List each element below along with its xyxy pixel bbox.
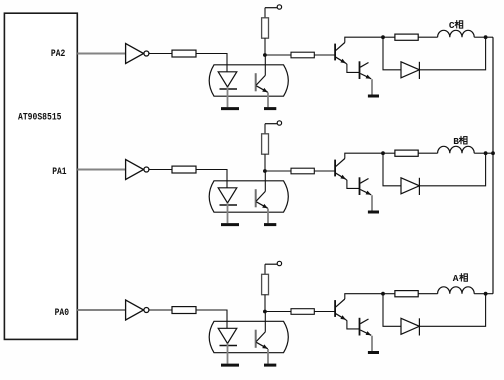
Vcc terminal	[265, 261, 282, 265]
wire node to resistor R3	[265, 54, 291, 56]
resistor R11 base	[291, 309, 314, 315]
wire L1 to phase node	[474, 36, 485, 38]
wire Q4 emitter to ground	[371, 195, 373, 210]
wire Q2 emitter to ground	[371, 79, 373, 94]
wire L3 to phase node	[474, 293, 485, 295]
wire LED cathode to ground	[227, 87, 229, 107]
inverter U2	[126, 160, 149, 180]
svg-text:PA0: PA0	[55, 308, 69, 319]
LED inside OC2	[218, 188, 237, 205]
Vcc terminal	[265, 5, 282, 9]
wire Q5 emitter to Q6 base	[346, 320, 360, 329]
wire R11 to Q5 base	[314, 311, 335, 313]
Vcc terminal	[265, 121, 282, 125]
ground (phototransistor emitter)	[264, 107, 276, 110]
label C相	[449, 20, 463, 31]
junction dot on bus	[491, 151, 495, 155]
wire R4 to inductor L1	[418, 36, 437, 38]
inverter U3	[126, 300, 149, 320]
ground (Q2 emitter)	[368, 95, 379, 98]
svg-text:C: C	[449, 20, 455, 31]
wire node to resistor R12	[383, 293, 395, 295]
node dot (phase node A)	[484, 292, 488, 296]
node dot (phase node C)	[484, 35, 488, 39]
node dot (collector node)	[381, 292, 385, 296]
ground (phototransistor emitter)	[264, 223, 276, 226]
wire phototransistor collector to node	[264, 312, 266, 332]
diode D1 flyback	[401, 62, 419, 79]
transistor Q6	[360, 318, 372, 336]
wire node to resistor R11	[265, 311, 291, 313]
wire Vcc to resistor R2	[264, 8, 266, 18]
optocoupler OC3 body	[209, 321, 288, 352]
wire node to diode D1 anode	[383, 37, 401, 70]
wire phototransistor collector to node	[264, 55, 266, 75]
wire Q6 emitter to ground	[371, 336, 373, 351]
transistor Q5	[335, 299, 346, 320]
optocoupler OC1 body	[209, 65, 288, 96]
wire R9 to optocoupler LED anode	[196, 310, 227, 328]
resistor R2 pull-up	[262, 18, 269, 38]
resistor R3 base	[291, 52, 314, 58]
wire R5 to optocoupler LED anode	[196, 170, 227, 188]
LED inside OC1	[218, 72, 237, 89]
node junction dot	[263, 310, 267, 314]
optocoupler OC2 body	[209, 181, 288, 212]
wire node to diode D3 anode	[383, 294, 401, 327]
resistor R10 pull-up	[262, 274, 269, 294]
wire R12 to inductor L3	[418, 293, 437, 295]
wire node to resistor R4	[383, 36, 395, 38]
ground (LED cathode)	[221, 223, 239, 226]
resistor R7 base	[291, 168, 314, 174]
ground (Q4 emitter)	[368, 211, 379, 214]
wire D2 cathode to phase node	[419, 153, 485, 186]
svg-text:B: B	[453, 136, 459, 147]
inductor L3 A-phase winding	[438, 287, 475, 294]
svg-text:PA2: PA2	[51, 49, 65, 60]
wire inverter to resistor R9	[149, 309, 172, 311]
wire Q5 collector to node	[345, 294, 383, 299]
wire phototransistor collector to node	[264, 171, 266, 191]
wire R8 to inductor L2	[418, 152, 437, 154]
wire Q1 emitter to Q2 base	[346, 63, 360, 72]
ground (phototransistor emitter)	[264, 364, 276, 367]
svg-text:AT90S8515: AT90S8515	[18, 113, 62, 124]
wire node to resistor R7	[265, 170, 291, 172]
wire LED cathode to ground	[227, 203, 229, 223]
transistor Q4	[360, 177, 372, 195]
resistor R6 pull-up	[262, 134, 269, 154]
wire Q1 collector to node	[345, 37, 383, 42]
ground (Q6 emitter)	[368, 351, 379, 354]
wire Vcc to resistor R6	[264, 124, 266, 134]
wire Vcc to resistor R10	[264, 264, 266, 274]
wire D1 cathode to phase node	[419, 37, 485, 70]
wire phototransistor emitter to ground	[267, 349, 269, 364]
resistor R5	[172, 166, 196, 173]
wire phototransistor emitter to ground	[267, 209, 269, 224]
resistor R12 phase	[395, 291, 418, 297]
wire LED cathode to ground	[227, 344, 229, 364]
svg-text:PA1: PA1	[52, 167, 66, 178]
wire R3 to Q1 base	[314, 54, 335, 56]
transistor Q2	[360, 61, 372, 79]
resistor R8 phase	[395, 150, 418, 156]
wire R10 to node	[264, 295, 266, 312]
wire PA0 to inverter U3	[77, 309, 125, 311]
diode D3 flyback	[401, 318, 419, 335]
label B相	[453, 136, 467, 147]
wire node to diode D2 anode	[383, 153, 401, 186]
wire inverter to resistor R5	[149, 169, 172, 171]
wire R1 to optocoupler LED anode	[196, 54, 227, 72]
wire phase node to bus	[486, 152, 493, 154]
resistor R1	[172, 50, 196, 57]
ground (LED cathode)	[221, 107, 239, 110]
wire Q3 collector to node	[345, 153, 383, 158]
transistor Q1	[335, 43, 346, 64]
resistor R4 phase	[395, 34, 418, 40]
phototransistor inside OC3	[256, 330, 268, 349]
wire PA2 to inverter U1	[77, 53, 125, 55]
node junction dot	[263, 53, 267, 57]
wire R6 to node	[264, 154, 266, 171]
IC U0 AT90S8515 microcontroller	[4, 13, 77, 339]
wire inverter to resistor R1	[149, 53, 172, 55]
phototransistor inside OC2	[256, 189, 268, 208]
wire phototransistor emitter to ground	[267, 93, 269, 108]
wire R2 to node	[264, 38, 266, 55]
wire phase node to bus	[486, 36, 493, 38]
ground (LED cathode)	[221, 364, 239, 367]
node dot (collector node)	[381, 35, 385, 39]
wire PA1 to inverter U2	[77, 169, 125, 171]
node dot (collector node)	[381, 151, 385, 155]
label A相	[453, 273, 468, 284]
inverter U1	[126, 44, 149, 64]
resistor R9	[172, 307, 196, 314]
wire R7 to Q3 base	[314, 170, 335, 172]
wire L2 to phase node	[474, 152, 485, 154]
phototransistor inside OC1	[256, 73, 268, 92]
wire phase node to bus	[486, 293, 493, 295]
wire D3 cathode to phase node	[419, 294, 485, 327]
node dot (phase node B)	[484, 151, 488, 155]
svg-text:A: A	[453, 273, 459, 284]
inductor L1 C-phase winding	[438, 30, 475, 37]
diode D2 flyback	[401, 178, 419, 195]
wire node to resistor R8	[383, 152, 395, 154]
node junction dot	[263, 169, 267, 173]
bus wire (common right vertical)	[492, 37, 494, 294]
LED inside OC3	[218, 328, 237, 345]
wire Q3 emitter to Q4 base	[346, 179, 360, 188]
transistor Q3	[335, 159, 346, 180]
inductor L2 B-phase winding	[438, 146, 475, 153]
